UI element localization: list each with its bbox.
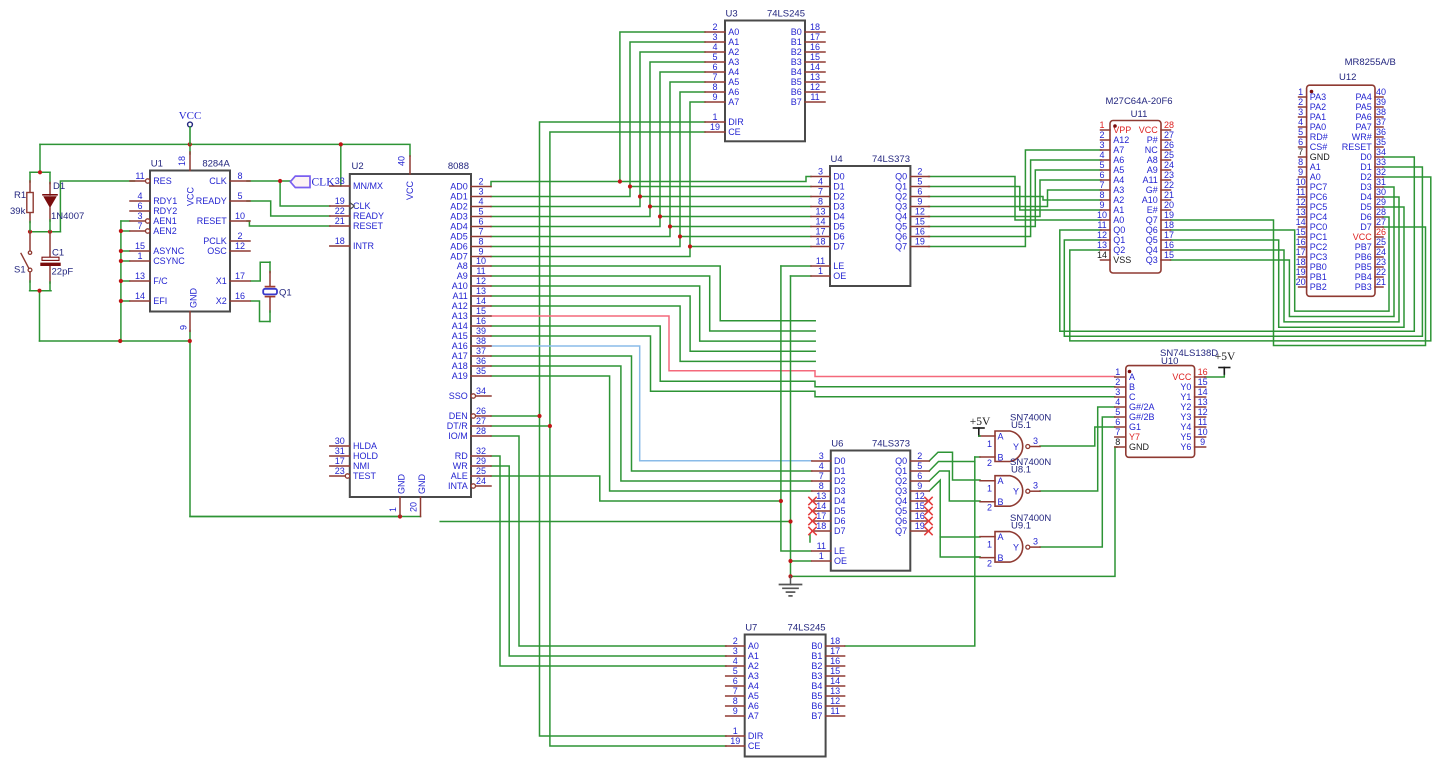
svg-text:G#/2B: G#/2B bbox=[1129, 412, 1155, 422]
svg-text:5: 5 bbox=[1099, 160, 1104, 170]
svg-text:21: 21 bbox=[335, 216, 345, 226]
svg-text:2: 2 bbox=[733, 636, 738, 646]
svg-text:B: B bbox=[998, 453, 1004, 463]
svg-text:12: 12 bbox=[1097, 230, 1107, 240]
svg-text:27: 27 bbox=[1376, 217, 1386, 227]
svg-text:D2: D2 bbox=[1360, 172, 1372, 182]
svg-text:3: 3 bbox=[1033, 537, 1038, 547]
svg-text:B6: B6 bbox=[811, 701, 822, 711]
svg-text:2: 2 bbox=[917, 166, 922, 176]
svg-text:NC: NC bbox=[1145, 145, 1158, 155]
svg-text:10: 10 bbox=[235, 211, 245, 221]
svg-text:11: 11 bbox=[810, 92, 819, 102]
svg-text:29: 29 bbox=[476, 456, 486, 466]
svg-text:D1: D1 bbox=[53, 181, 65, 192]
svg-text:11: 11 bbox=[1296, 187, 1305, 197]
svg-text:24: 24 bbox=[1164, 160, 1174, 170]
svg-text:A7: A7 bbox=[728, 97, 739, 107]
svg-text:U1: U1 bbox=[151, 159, 163, 170]
svg-text:A: A bbox=[998, 532, 1004, 542]
svg-text:A3: A3 bbox=[748, 671, 759, 681]
svg-text:B0: B0 bbox=[811, 641, 822, 651]
svg-text:19: 19 bbox=[1164, 210, 1174, 220]
svg-text:PB7: PB7 bbox=[1355, 242, 1372, 252]
svg-text:PA1: PA1 bbox=[1310, 112, 1326, 122]
svg-text:Y6: Y6 bbox=[1180, 442, 1191, 452]
svg-text:S1: S1 bbox=[14, 265, 26, 276]
svg-text:4: 4 bbox=[712, 42, 717, 52]
svg-text:Y5: Y5 bbox=[1180, 432, 1191, 442]
svg-text:26: 26 bbox=[476, 406, 486, 416]
svg-text:11: 11 bbox=[476, 266, 485, 276]
svg-text:AD7: AD7 bbox=[450, 252, 468, 262]
svg-text:DT/R: DT/R bbox=[447, 421, 468, 431]
svg-text:5: 5 bbox=[733, 666, 738, 676]
svg-text:RESET: RESET bbox=[1342, 142, 1373, 152]
svg-text:+5V: +5V bbox=[970, 416, 991, 428]
svg-text:D3: D3 bbox=[1360, 182, 1372, 192]
svg-text:IO/M: IO/M bbox=[448, 431, 468, 441]
svg-text:2: 2 bbox=[987, 559, 992, 569]
svg-text:NMI: NMI bbox=[353, 461, 370, 471]
svg-text:C: C bbox=[1129, 392, 1136, 402]
svg-text:28: 28 bbox=[1376, 207, 1386, 217]
svg-text:2: 2 bbox=[1298, 97, 1303, 107]
svg-text:WR#: WR# bbox=[1352, 132, 1372, 142]
svg-text:B: B bbox=[998, 553, 1004, 563]
svg-text:OE: OE bbox=[834, 556, 847, 566]
svg-text:21: 21 bbox=[1376, 277, 1386, 287]
svg-text:2: 2 bbox=[712, 22, 717, 32]
svg-text:7: 7 bbox=[819, 471, 824, 481]
svg-text:PC7: PC7 bbox=[1310, 182, 1328, 192]
svg-text:36: 36 bbox=[1376, 127, 1386, 137]
svg-text:LE: LE bbox=[833, 261, 844, 271]
svg-text:PB2: PB2 bbox=[1310, 282, 1327, 292]
svg-text:15: 15 bbox=[1296, 227, 1306, 237]
svg-text:A0: A0 bbox=[1113, 215, 1124, 225]
svg-text:9: 9 bbox=[733, 706, 738, 716]
svg-text:19: 19 bbox=[1296, 267, 1306, 277]
svg-text:AD3: AD3 bbox=[450, 212, 468, 222]
svg-text:A1: A1 bbox=[1310, 162, 1321, 172]
svg-text:40: 40 bbox=[397, 156, 407, 166]
svg-text:22pF: 22pF bbox=[52, 267, 74, 278]
svg-text:B7: B7 bbox=[811, 711, 822, 721]
svg-text:12: 12 bbox=[235, 241, 245, 251]
svg-text:Q1: Q1 bbox=[279, 288, 292, 299]
svg-text:D5: D5 bbox=[1360, 202, 1372, 212]
svg-text:D5: D5 bbox=[834, 506, 846, 516]
svg-text:DEN: DEN bbox=[449, 411, 468, 421]
svg-text:3: 3 bbox=[1099, 140, 1104, 150]
svg-text:U3: U3 bbox=[726, 9, 738, 20]
svg-text:8: 8 bbox=[478, 236, 483, 246]
svg-text:1: 1 bbox=[388, 507, 398, 512]
svg-text:13: 13 bbox=[476, 286, 486, 296]
svg-text:2: 2 bbox=[237, 231, 242, 241]
svg-text:CE: CE bbox=[728, 127, 741, 137]
svg-text:D2: D2 bbox=[834, 476, 846, 486]
svg-text:17: 17 bbox=[235, 271, 245, 281]
svg-text:GND: GND bbox=[189, 288, 199, 309]
svg-text:D0: D0 bbox=[834, 456, 846, 466]
svg-text:17: 17 bbox=[816, 511, 826, 521]
svg-text:READY: READY bbox=[196, 196, 227, 206]
svg-text:PC2: PC2 bbox=[1310, 242, 1328, 252]
svg-text:20: 20 bbox=[1296, 277, 1306, 287]
svg-text:10: 10 bbox=[1296, 177, 1306, 187]
svg-text:ASYNC: ASYNC bbox=[153, 246, 185, 256]
svg-text:A9: A9 bbox=[1147, 165, 1158, 175]
svg-text:13: 13 bbox=[815, 206, 825, 216]
svg-text:10: 10 bbox=[476, 256, 486, 266]
svg-text:VCC: VCC bbox=[1172, 372, 1192, 382]
svg-text:PB6: PB6 bbox=[1355, 252, 1372, 262]
svg-text:VCC: VCC bbox=[1139, 125, 1159, 135]
svg-text:A14: A14 bbox=[452, 321, 468, 331]
svg-text:A18: A18 bbox=[452, 361, 468, 371]
svg-text:A3: A3 bbox=[728, 57, 739, 67]
svg-text:19: 19 bbox=[710, 122, 720, 132]
svg-text:12: 12 bbox=[830, 696, 840, 706]
svg-text:A0: A0 bbox=[1310, 172, 1321, 182]
svg-text:15: 15 bbox=[830, 666, 840, 676]
svg-text:D6: D6 bbox=[1360, 212, 1372, 222]
svg-text:6: 6 bbox=[478, 216, 483, 226]
svg-text:Q2: Q2 bbox=[895, 192, 907, 202]
svg-text:Q0: Q0 bbox=[895, 172, 907, 182]
svg-text:E#: E# bbox=[1147, 205, 1158, 215]
svg-text:23: 23 bbox=[335, 466, 345, 476]
svg-text:A6: A6 bbox=[728, 87, 739, 97]
svg-text:2: 2 bbox=[478, 176, 483, 186]
svg-text:5: 5 bbox=[237, 191, 242, 201]
svg-text:ALE: ALE bbox=[451, 471, 468, 481]
svg-text:A1: A1 bbox=[1113, 205, 1124, 215]
svg-text:13: 13 bbox=[830, 686, 840, 696]
svg-text:A0: A0 bbox=[748, 641, 759, 651]
svg-text:U9.1: U9.1 bbox=[1011, 521, 1031, 532]
svg-text:5: 5 bbox=[1298, 127, 1303, 137]
svg-text:8: 8 bbox=[818, 196, 823, 206]
svg-text:1N4007: 1N4007 bbox=[51, 211, 84, 222]
svg-text:18: 18 bbox=[810, 22, 820, 32]
svg-text:4: 4 bbox=[137, 191, 142, 201]
svg-text:Q6: Q6 bbox=[1146, 225, 1158, 235]
svg-text:11: 11 bbox=[135, 171, 144, 181]
svg-text:1: 1 bbox=[819, 551, 824, 561]
svg-text:16: 16 bbox=[915, 226, 925, 236]
svg-text:20: 20 bbox=[409, 502, 419, 512]
svg-text:AD5: AD5 bbox=[450, 232, 468, 242]
svg-text:4: 4 bbox=[1115, 397, 1120, 407]
svg-text:26: 26 bbox=[1376, 227, 1386, 237]
svg-text:PC0: PC0 bbox=[1310, 222, 1328, 232]
svg-text:U4: U4 bbox=[831, 154, 843, 165]
svg-text:16: 16 bbox=[1198, 367, 1208, 377]
svg-text:A: A bbox=[998, 476, 1004, 486]
svg-text:AD6: AD6 bbox=[450, 242, 468, 252]
svg-text:5: 5 bbox=[917, 176, 922, 186]
svg-text:Q3: Q3 bbox=[895, 202, 907, 212]
svg-text:22: 22 bbox=[335, 206, 345, 216]
svg-text:35: 35 bbox=[1376, 137, 1386, 147]
svg-text:5: 5 bbox=[478, 206, 483, 216]
svg-text:37: 37 bbox=[476, 346, 486, 356]
svg-text:Y7: Y7 bbox=[1129, 432, 1140, 442]
svg-text:11: 11 bbox=[817, 541, 826, 551]
svg-text:3: 3 bbox=[733, 646, 738, 656]
svg-text:37: 37 bbox=[1376, 117, 1386, 127]
svg-text:26: 26 bbox=[1164, 140, 1174, 150]
svg-text:OSC: OSC bbox=[207, 246, 227, 256]
svg-text:DIR: DIR bbox=[728, 117, 744, 127]
svg-text:B: B bbox=[1129, 382, 1135, 392]
svg-text:7: 7 bbox=[1099, 180, 1104, 190]
svg-text:A10: A10 bbox=[1142, 195, 1158, 205]
svg-text:13: 13 bbox=[135, 271, 145, 281]
svg-text:36: 36 bbox=[476, 356, 486, 366]
svg-text:11: 11 bbox=[1097, 220, 1106, 230]
svg-text:CLK: CLK bbox=[209, 176, 227, 186]
svg-text:B1: B1 bbox=[811, 651, 822, 661]
svg-text:D7: D7 bbox=[834, 526, 846, 536]
svg-text:18: 18 bbox=[815, 236, 825, 246]
svg-text:2: 2 bbox=[987, 458, 992, 468]
svg-text:8284A: 8284A bbox=[202, 159, 230, 170]
svg-text:A13: A13 bbox=[452, 311, 468, 321]
svg-text:34: 34 bbox=[476, 386, 486, 396]
svg-text:B4: B4 bbox=[791, 67, 802, 77]
svg-text:17: 17 bbox=[815, 226, 825, 236]
svg-text:1: 1 bbox=[987, 439, 992, 449]
svg-text:PC1: PC1 bbox=[1310, 232, 1328, 242]
svg-text:9: 9 bbox=[712, 92, 717, 102]
svg-text:A2: A2 bbox=[1113, 195, 1124, 205]
svg-text:A5: A5 bbox=[728, 77, 739, 87]
svg-text:17: 17 bbox=[830, 646, 840, 656]
svg-text:PCLK: PCLK bbox=[203, 236, 227, 246]
svg-text:9: 9 bbox=[1099, 200, 1104, 210]
svg-text:D4: D4 bbox=[834, 496, 846, 506]
svg-text:12: 12 bbox=[476, 276, 486, 286]
svg-text:D7: D7 bbox=[1360, 222, 1372, 232]
svg-text:9: 9 bbox=[478, 246, 483, 256]
svg-text:AD1: AD1 bbox=[450, 192, 468, 202]
svg-text:5: 5 bbox=[1115, 407, 1120, 417]
svg-text:7: 7 bbox=[478, 226, 483, 236]
svg-text:39: 39 bbox=[1376, 97, 1386, 107]
svg-text:RD#: RD# bbox=[1310, 132, 1328, 142]
svg-text:10: 10 bbox=[1198, 427, 1208, 437]
svg-text:CS#: CS# bbox=[1310, 142, 1328, 152]
svg-text:Q4: Q4 bbox=[895, 212, 907, 222]
svg-text:19: 19 bbox=[335, 196, 345, 206]
svg-text:GND: GND bbox=[397, 474, 407, 495]
svg-text:RDY1: RDY1 bbox=[153, 196, 177, 206]
svg-text:3: 3 bbox=[478, 186, 483, 196]
svg-text:VCC: VCC bbox=[405, 180, 415, 200]
svg-text:24: 24 bbox=[476, 476, 486, 486]
svg-text:G#: G# bbox=[1146, 185, 1158, 195]
svg-text:D4: D4 bbox=[833, 212, 845, 222]
svg-text:A: A bbox=[1129, 372, 1135, 382]
svg-text:17: 17 bbox=[335, 456, 345, 466]
svg-text:D7: D7 bbox=[833, 242, 845, 252]
svg-text:23: 23 bbox=[1164, 170, 1174, 180]
svg-text:14: 14 bbox=[476, 296, 486, 306]
svg-text:Q7: Q7 bbox=[1146, 215, 1158, 225]
svg-text:16: 16 bbox=[810, 42, 820, 52]
svg-text:READY: READY bbox=[353, 211, 384, 221]
svg-text:X1: X1 bbox=[216, 276, 227, 286]
svg-text:34: 34 bbox=[1376, 147, 1386, 157]
svg-text:P#: P# bbox=[1147, 135, 1158, 145]
svg-text:M27C64A-20F6: M27C64A-20F6 bbox=[1105, 96, 1172, 107]
svg-text:Q2: Q2 bbox=[895, 476, 907, 486]
svg-text:38: 38 bbox=[1376, 107, 1386, 117]
svg-text:Q4: Q4 bbox=[1146, 245, 1158, 255]
svg-text:11: 11 bbox=[816, 256, 825, 266]
svg-text:MN/MX: MN/MX bbox=[353, 181, 383, 191]
svg-text:PA4: PA4 bbox=[1355, 92, 1371, 102]
svg-text:B4: B4 bbox=[811, 681, 822, 691]
svg-text:D0: D0 bbox=[1360, 152, 1372, 162]
svg-text:A2: A2 bbox=[748, 661, 759, 671]
svg-text:3: 3 bbox=[1115, 387, 1120, 397]
svg-text:1: 1 bbox=[987, 484, 992, 494]
svg-text:D3: D3 bbox=[833, 202, 845, 212]
svg-text:B3: B3 bbox=[791, 57, 802, 67]
svg-text:16: 16 bbox=[1164, 240, 1174, 250]
svg-text:A2: A2 bbox=[728, 47, 739, 57]
svg-text:35: 35 bbox=[476, 366, 486, 376]
svg-text:14: 14 bbox=[1296, 217, 1306, 227]
svg-text:Y: Y bbox=[1013, 542, 1019, 552]
svg-text:13: 13 bbox=[1296, 207, 1306, 217]
svg-text:A5: A5 bbox=[748, 691, 759, 701]
svg-text:8: 8 bbox=[237, 171, 242, 181]
svg-text:PA3: PA3 bbox=[1310, 92, 1326, 102]
svg-text:13: 13 bbox=[816, 491, 826, 501]
svg-text:AD4: AD4 bbox=[450, 222, 468, 232]
svg-text:4: 4 bbox=[733, 656, 738, 666]
svg-text:PA5: PA5 bbox=[1355, 102, 1371, 112]
svg-text:B5: B5 bbox=[791, 77, 802, 87]
svg-text:19: 19 bbox=[915, 521, 925, 531]
svg-text:D1: D1 bbox=[1360, 162, 1372, 172]
svg-text:INTR: INTR bbox=[353, 241, 374, 251]
svg-text:Q3: Q3 bbox=[1146, 255, 1158, 265]
svg-text:16: 16 bbox=[830, 656, 840, 666]
svg-text:Q2: Q2 bbox=[1113, 245, 1125, 255]
svg-text:Q5: Q5 bbox=[1146, 235, 1158, 245]
svg-text:1: 1 bbox=[137, 251, 142, 261]
svg-text:21: 21 bbox=[1164, 190, 1174, 200]
svg-text:A11: A11 bbox=[1142, 175, 1157, 185]
svg-text:15: 15 bbox=[476, 306, 486, 316]
svg-text:CE: CE bbox=[748, 741, 761, 751]
svg-text:G1: G1 bbox=[1129, 422, 1141, 432]
svg-text:A19: A19 bbox=[452, 371, 468, 381]
svg-text:3: 3 bbox=[818, 166, 823, 176]
svg-text:X2: X2 bbox=[216, 296, 227, 306]
svg-text:Q6: Q6 bbox=[895, 232, 907, 242]
svg-text:23: 23 bbox=[1376, 257, 1386, 267]
svg-text:C1: C1 bbox=[52, 248, 64, 259]
svg-text:24: 24 bbox=[1376, 247, 1386, 257]
svg-text:Q5: Q5 bbox=[895, 222, 907, 232]
svg-text:PB0: PB0 bbox=[1310, 262, 1327, 272]
svg-text:A0: A0 bbox=[728, 27, 739, 37]
svg-text:13: 13 bbox=[810, 72, 820, 82]
svg-text:6: 6 bbox=[1298, 137, 1303, 147]
svg-text:WR: WR bbox=[453, 461, 468, 471]
svg-text:B0: B0 bbox=[791, 27, 802, 37]
svg-text:17: 17 bbox=[810, 32, 820, 42]
svg-text:11: 11 bbox=[1198, 417, 1207, 427]
svg-text:4: 4 bbox=[819, 461, 824, 471]
svg-text:25: 25 bbox=[1376, 237, 1386, 247]
svg-text:7: 7 bbox=[733, 686, 738, 696]
svg-text:28: 28 bbox=[1164, 120, 1174, 130]
svg-text:D1: D1 bbox=[834, 466, 846, 476]
svg-text:AEN2: AEN2 bbox=[153, 226, 177, 236]
svg-text:B2: B2 bbox=[791, 47, 802, 57]
svg-text:14: 14 bbox=[815, 216, 825, 226]
svg-text:OE: OE bbox=[833, 271, 846, 281]
svg-text:8: 8 bbox=[819, 481, 824, 491]
svg-text:3: 3 bbox=[1033, 436, 1038, 446]
svg-text:3: 3 bbox=[712, 32, 717, 42]
svg-text:Q0: Q0 bbox=[1113, 225, 1125, 235]
svg-text:5: 5 bbox=[917, 461, 922, 471]
svg-text:3: 3 bbox=[1298, 107, 1303, 117]
svg-text:6: 6 bbox=[1099, 170, 1104, 180]
svg-text:A4: A4 bbox=[728, 67, 739, 77]
svg-text:AD2: AD2 bbox=[450, 202, 468, 212]
svg-text:27: 27 bbox=[476, 416, 486, 426]
svg-text:1: 1 bbox=[818, 266, 823, 276]
svg-text:A16: A16 bbox=[452, 341, 468, 351]
svg-text:Q0: Q0 bbox=[895, 456, 907, 466]
svg-text:39: 39 bbox=[476, 326, 486, 336]
svg-text:A9: A9 bbox=[457, 271, 468, 281]
svg-text:A17: A17 bbox=[452, 351, 468, 361]
svg-text:30: 30 bbox=[1376, 187, 1386, 197]
svg-text:A6: A6 bbox=[1113, 155, 1124, 165]
svg-text:B5: B5 bbox=[811, 691, 822, 701]
svg-text:GND: GND bbox=[1129, 442, 1150, 452]
svg-text:8: 8 bbox=[1115, 437, 1120, 447]
svg-text:RDY2: RDY2 bbox=[153, 206, 177, 216]
svg-text:MR8255A/B: MR8255A/B bbox=[1345, 57, 1396, 68]
svg-text:VCC: VCC bbox=[179, 110, 202, 122]
svg-text:PA7: PA7 bbox=[1355, 122, 1371, 132]
svg-text:4: 4 bbox=[478, 196, 483, 206]
svg-text:74LS245: 74LS245 bbox=[788, 623, 826, 634]
svg-text:PC4: PC4 bbox=[1310, 212, 1328, 222]
svg-text:16: 16 bbox=[1296, 237, 1306, 247]
svg-text:17: 17 bbox=[1164, 230, 1174, 240]
svg-text:22: 22 bbox=[1164, 180, 1174, 190]
svg-text:AD0: AD0 bbox=[450, 182, 468, 192]
svg-text:TEST: TEST bbox=[353, 471, 377, 481]
svg-text:B2: B2 bbox=[811, 661, 822, 671]
svg-text:A4: A4 bbox=[748, 681, 759, 691]
svg-text:2: 2 bbox=[1115, 377, 1120, 387]
